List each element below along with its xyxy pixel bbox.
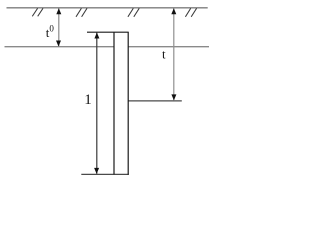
svg-text:0: 0 <box>49 24 54 34</box>
ground surface line <box>7 7 208 9</box>
hatch marks pair 1 <box>32 8 43 16</box>
svg-text:t: t <box>162 47 166 62</box>
label l <box>84 92 92 108</box>
dimension line l <box>94 33 99 174</box>
label t <box>162 47 166 62</box>
dredge line right <box>128 100 182 102</box>
excavation line left (second ground line) <box>5 46 210 48</box>
pile wall <box>87 32 129 175</box>
dimension line t0 <box>56 8 61 46</box>
hatch marks pair 3 <box>128 8 139 16</box>
base line under pile tip <box>81 173 129 175</box>
label t0 <box>46 24 55 40</box>
hatch marks pair 2 <box>76 8 87 16</box>
dimension line t <box>171 8 176 100</box>
hatch marks pair 4 <box>185 8 196 16</box>
svg-text:1: 1 <box>84 92 92 108</box>
